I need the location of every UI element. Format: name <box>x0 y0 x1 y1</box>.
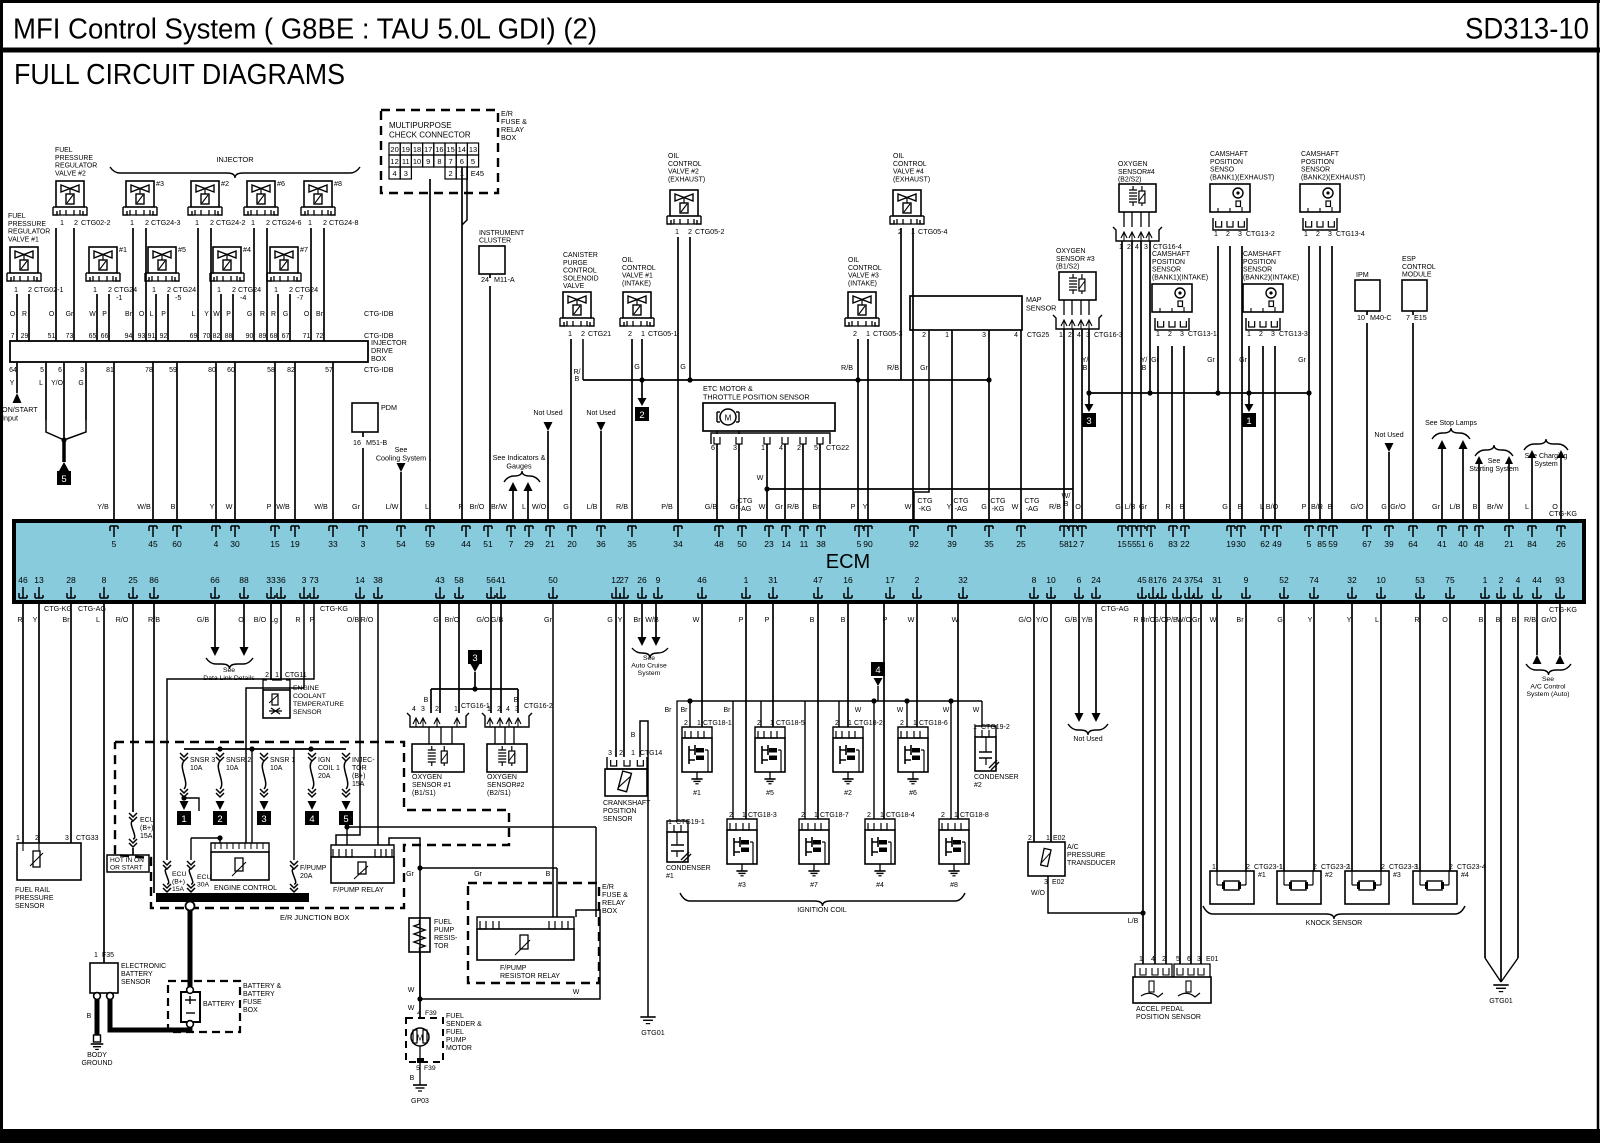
svg-text:CTG-AG: CTG-AG <box>1101 604 1129 613</box>
svg-text:G: G <box>1115 502 1121 511</box>
svg-text:3: 3 <box>472 653 477 664</box>
svg-text:L/B: L/B <box>587 502 598 511</box>
svg-text:Y: Y <box>1347 615 1352 624</box>
svg-text:BOX: BOX <box>371 354 386 363</box>
svg-text:10: 10 <box>1376 575 1386 585</box>
wire colour labels above ECM <box>97 502 1558 511</box>
svg-text:Gr: Gr <box>66 311 74 318</box>
branch from SNSR3 fuse <box>181 795 186 800</box>
svg-text:Y: Y <box>1308 615 1313 624</box>
svg-text:20: 20 <box>567 539 577 549</box>
svg-text:(BANK1)(INTAKE): (BANK1)(INTAKE) <box>1152 274 1208 281</box>
svg-text:20A: 20A <box>318 773 331 780</box>
svg-text:51: 51 <box>1136 539 1146 549</box>
svg-text:F39: F39 <box>425 1010 437 1017</box>
svg-text:Br: Br <box>812 502 820 511</box>
svg-text:1: 1 <box>14 285 18 294</box>
svg-text:1: 1 <box>93 285 97 294</box>
svg-text:ACCEL PEDAL: ACCEL PEDAL <box>1136 1006 1184 1013</box>
wire ECM 86 to bus bar <box>153 604 155 893</box>
E/R fuse and relay box lower dashed outline <box>468 883 599 983</box>
svg-text:85: 85 <box>1317 539 1327 549</box>
svg-text:5: 5 <box>814 443 818 452</box>
svg-text:57: 57 <box>325 367 333 374</box>
svg-text:4: 4 <box>1151 956 1155 963</box>
svg-text:1: 1 <box>1304 231 1308 238</box>
svg-text:CTG13-1: CTG13-1 <box>1188 331 1217 338</box>
fuel rail pressure sensor <box>17 843 81 880</box>
svg-text:51: 51 <box>483 539 493 549</box>
svg-text:BATTERY: BATTERY <box>203 1001 235 1008</box>
svg-text:(INTAKE): (INTAKE) <box>848 280 877 287</box>
svg-text:SENSOR: SENSOR <box>293 709 322 716</box>
svg-text:Gr: Gr <box>406 871 414 878</box>
svg-text:2: 2 <box>1226 231 1230 238</box>
svg-text:30A: 30A <box>197 882 210 889</box>
svg-text:CTG22: CTG22 <box>826 443 849 452</box>
wires valves and injectors to injector drive box <box>10 228 324 341</box>
svg-text:SNSR 2: SNSR 2 <box>226 757 251 764</box>
svg-text:W: W <box>905 502 912 511</box>
svg-text:10A: 10A <box>226 765 239 772</box>
svg-text:46: 46 <box>697 575 707 585</box>
svg-text:G: G <box>78 380 83 387</box>
svg-text:W: W <box>855 707 862 714</box>
svg-text:2: 2 <box>581 329 585 338</box>
svg-text:2: 2 <box>1449 864 1453 871</box>
injector #2 <box>191 181 219 207</box>
svg-text:41: 41 <box>1437 539 1447 549</box>
bottom black bar <box>0 1129 1600 1143</box>
svg-text:90: 90 <box>246 333 254 340</box>
thick bus bar in junction box <box>156 893 309 902</box>
svg-text:1: 1 <box>866 329 870 338</box>
svg-text:10A: 10A <box>190 765 203 772</box>
svg-text:11: 11 <box>402 157 410 166</box>
ON/START input arrow <box>13 393 22 403</box>
svg-text:12: 12 <box>390 157 398 166</box>
fuse F/PUMP 20A <box>293 749 295 860</box>
svg-text:47: 47 <box>813 575 823 585</box>
svg-text:Gr: Gr <box>474 871 482 878</box>
svg-text:18: 18 <box>413 145 421 154</box>
svg-text:POSITION SENSOR: POSITION SENSOR <box>1136 1014 1201 1021</box>
svg-text:G: G <box>981 502 987 511</box>
svg-text:P: P <box>226 311 231 318</box>
svg-text:11: 11 <box>800 539 809 549</box>
svg-text:15A: 15A <box>140 833 153 840</box>
svg-text:KNOCK SENSOR: KNOCK SENSOR <box>1306 920 1362 927</box>
svg-text:CTG23-4: CTG23-4 <box>1457 864 1486 871</box>
camshaft position sensor bank2 intake <box>1243 284 1283 312</box>
svg-text:2: 2 <box>1316 231 1320 238</box>
svg-text:RESISTOR RELAY: RESISTOR RELAY <box>500 973 560 980</box>
svg-text:2: 2 <box>289 285 293 294</box>
svg-text:W: W <box>943 707 950 714</box>
svg-text:W: W <box>693 615 700 624</box>
svg-text:59: 59 <box>1328 539 1338 549</box>
svg-text:See: See <box>1488 458 1501 465</box>
svg-text:GROUND: GROUND <box>81 1060 112 1067</box>
svg-text:1: 1 <box>152 285 156 294</box>
svg-text:SENDER &: SENDER & <box>446 1021 482 1028</box>
svg-text:L/B: L/B <box>1125 502 1136 511</box>
svg-text:W/O: W/O <box>1031 890 1046 897</box>
svg-text:CTG-KG: CTG-KG <box>1549 605 1577 614</box>
see data link details <box>214 604 216 647</box>
svg-text:15: 15 <box>446 145 454 154</box>
HOT IN ON OR START box <box>107 855 149 872</box>
svg-text:INJEC-: INJEC- <box>352 757 375 764</box>
svg-text:Starting System: Starting System <box>1469 466 1519 473</box>
svg-text:Gr: Gr <box>544 615 553 624</box>
svg-text:CTG05-3: CTG05-3 <box>873 329 903 338</box>
svg-text:2: 2 <box>265 672 269 679</box>
svg-text:IGN: IGN <box>318 757 330 764</box>
svg-text:HOT IN ON: HOT IN ON <box>110 857 144 864</box>
svg-text:L/B: L/B <box>1128 918 1139 925</box>
svg-text:CTG-KG: CTG-KG <box>320 604 348 613</box>
svg-text:W: W <box>973 707 980 714</box>
svg-text:Y: Y <box>618 615 623 624</box>
svg-text:2: 2 <box>729 812 733 819</box>
Gr bus wire <box>1089 392 1309 394</box>
svg-text:R/B: R/B <box>616 502 628 511</box>
svg-text:PDM: PDM <box>381 403 397 412</box>
svg-text:2: 2 <box>1499 575 1504 585</box>
svg-text:10: 10 <box>1357 313 1365 322</box>
svg-text:O: O <box>1075 502 1081 511</box>
svg-text:1: 1 <box>274 285 278 294</box>
svg-text:1: 1 <box>1347 864 1351 871</box>
injector #8 <box>304 181 332 207</box>
svg-text:2: 2 <box>497 706 501 713</box>
svg-text:POSITION: POSITION <box>1210 159 1243 166</box>
svg-text:CTG05-4: CTG05-4 <box>918 227 948 236</box>
svg-text:4: 4 <box>1077 332 1081 339</box>
svg-text:38: 38 <box>816 539 826 549</box>
fuse SNSR 2 10A <box>216 753 224 757</box>
svg-text:1: 1 <box>848 720 852 727</box>
oxygen sensor #3 <box>1059 272 1096 300</box>
svg-text:PRESSURE: PRESSURE <box>15 895 54 902</box>
E/R fuse and relay box (check connector) dashed outline <box>381 110 498 193</box>
svg-text:SD313-10: SD313-10 <box>1465 13 1589 46</box>
svg-text:ECU: ECU <box>197 874 211 881</box>
svg-text:4: 4 <box>1516 575 1521 585</box>
svg-text:B: B <box>1142 365 1147 372</box>
svg-text:54: 54 <box>1193 575 1203 585</box>
svg-text:4: 4 <box>779 443 783 452</box>
svg-text:R: R <box>271 311 276 318</box>
svg-text:CTG16-3: CTG16-3 <box>1094 332 1123 339</box>
svg-text:F/PUMP RELAY: F/PUMP RELAY <box>333 887 384 894</box>
thick wire battery sensor to battery <box>110 999 190 1030</box>
svg-text:#8: #8 <box>950 882 958 889</box>
R/B bus wire <box>583 379 989 381</box>
svg-text:19: 19 <box>402 145 410 154</box>
svg-text:CTG16-4: CTG16-4 <box>1153 244 1182 251</box>
svg-text:(BANK2)(INTAKE): (BANK2)(INTAKE) <box>1243 274 1299 281</box>
svg-text:3: 3 <box>982 332 986 339</box>
svg-text:P: P <box>161 311 166 318</box>
svg-text:R/O: R/O <box>361 615 374 624</box>
svg-text:G/O: G/O <box>476 615 490 624</box>
svg-text:#7: #7 <box>810 882 818 889</box>
svg-text:BOX: BOX <box>243 1007 258 1014</box>
thick wire bus bar to battery <box>188 910 193 988</box>
svg-text:O: O <box>139 311 145 318</box>
svg-text:22: 22 <box>1180 539 1190 549</box>
svg-text:60: 60 <box>227 367 235 374</box>
svg-text:-4: -4 <box>240 293 246 302</box>
svg-text:FULL CIRCUIT DIAGRAMS: FULL CIRCUIT DIAGRAMS <box>14 59 345 91</box>
svg-text:3: 3 <box>1180 331 1184 338</box>
svg-text:82: 82 <box>213 333 221 340</box>
svg-text:W: W <box>759 502 766 511</box>
svg-text:CTG18-2: CTG18-2 <box>854 720 883 727</box>
svg-text:3: 3 <box>361 539 366 549</box>
wire ECM 25 through ECU (B+) 15A fuse to hot-in-on box <box>132 604 134 812</box>
svg-text:1: 1 <box>487 706 491 713</box>
svg-text:#1: #1 <box>119 245 127 254</box>
svg-text:2: 2 <box>1127 244 1131 251</box>
svg-text:1: 1 <box>1247 331 1251 338</box>
svg-text:CTG18-3: CTG18-3 <box>748 812 777 819</box>
svg-text:68: 68 <box>270 333 278 340</box>
svg-text:53: 53 <box>1415 575 1425 585</box>
svg-text:A/C: A/C <box>1067 844 1079 851</box>
svg-text:Not Used: Not Used <box>1374 432 1403 439</box>
svg-text:BATTERY: BATTERY <box>121 971 153 978</box>
svg-text:B: B <box>841 615 846 624</box>
svg-text:3: 3 <box>302 575 307 585</box>
svg-text:1: 1 <box>770 720 774 727</box>
svg-text:5: 5 <box>1176 956 1180 963</box>
svg-text:48: 48 <box>1474 539 1484 549</box>
svg-text:1: 1 <box>668 819 672 826</box>
page ref square 3 below ECM <box>468 650 482 664</box>
injector drive box <box>10 341 368 362</box>
svg-text:E15: E15 <box>1414 313 1427 322</box>
svg-text:W: W <box>1012 502 1019 511</box>
svg-text:OXYGEN: OXYGEN <box>487 774 517 781</box>
svg-text:REGULATOR: REGULATOR <box>8 229 50 236</box>
svg-text:CONTROL: CONTROL <box>563 268 597 275</box>
svg-text:16: 16 <box>435 145 443 154</box>
svg-text:7: 7 <box>449 157 453 166</box>
svg-text:2: 2 <box>74 218 78 227</box>
svg-text:3: 3 <box>261 814 266 825</box>
svg-text:System: System <box>638 670 661 677</box>
wires from check connector to ECM <box>429 179 431 521</box>
TPS connector crown <box>711 433 830 444</box>
svg-text:#2: #2 <box>221 179 229 188</box>
svg-text:CTG-IDB: CTG-IDB <box>364 365 394 374</box>
svg-text:G/B: G/B <box>197 615 210 624</box>
svg-text:36: 36 <box>596 539 606 549</box>
MAP sensor box <box>910 296 1022 330</box>
svg-text:-AG: -AG <box>739 504 752 513</box>
svg-text:15A: 15A <box>352 781 365 788</box>
svg-text:MFI Control System ( G8BE : T: MFI Control System ( G8BE : TAU 5.0L GDI… <box>13 14 597 46</box>
svg-text:SENSOR#2: SENSOR#2 <box>487 782 524 789</box>
svg-text:45: 45 <box>148 539 158 549</box>
svg-text:OIL: OIL <box>848 257 859 264</box>
svg-text:SENSO: SENSO <box>1210 167 1235 174</box>
svg-text:25: 25 <box>1016 539 1026 549</box>
svg-text:2: 2 <box>217 814 222 825</box>
svg-text:17: 17 <box>885 575 895 585</box>
oil control valve #3 <box>848 292 876 318</box>
svg-text:R: R <box>1414 615 1419 624</box>
svg-text:25: 25 <box>128 575 138 585</box>
svg-text:#4: #4 <box>876 882 884 889</box>
svg-text:59: 59 <box>425 539 435 549</box>
svg-text:Gr: Gr <box>1207 357 1215 364</box>
svg-text:CONDENSER: CONDENSER <box>974 774 1019 781</box>
svg-text:33: 33 <box>266 575 276 585</box>
svg-text:1: 1 <box>1214 231 1218 238</box>
svg-text:R: R <box>260 311 265 318</box>
svg-text:MULTIPURPOSE: MULTIPURPOSE <box>389 121 452 130</box>
svg-text:Br/W: Br/W <box>491 502 507 511</box>
svg-text:28: 28 <box>66 575 76 585</box>
svg-text:CTG18-1: CTG18-1 <box>703 720 732 727</box>
svg-text:2: 2 <box>688 227 692 236</box>
page ref square 3 above ECM <box>1088 393 1090 404</box>
svg-text:-7: -7 <box>297 293 303 302</box>
junction to oxygen sensor ground pins <box>472 686 477 691</box>
svg-text:TRANSDUCER: TRANSDUCER <box>1067 860 1116 867</box>
oil control valve #4 <box>893 190 921 216</box>
svg-text:14: 14 <box>781 539 791 549</box>
W branch wire from TPS pin 1 <box>764 486 769 491</box>
svg-text:2: 2 <box>941 812 945 819</box>
page ref squares 1-5 in junction box <box>180 801 189 810</box>
svg-text:P: P <box>102 311 107 318</box>
svg-text:E01: E01 <box>1206 956 1219 963</box>
svg-text:2: 2 <box>757 720 761 727</box>
svg-text:TEMPERATURE: TEMPERATURE <box>293 701 344 708</box>
svg-text:POSITION: POSITION <box>1243 259 1276 266</box>
svg-text:20: 20 <box>390 145 398 154</box>
svg-text:41: 41 <box>496 575 506 585</box>
svg-text:W/B: W/B <box>314 502 328 511</box>
svg-text:27: 27 <box>619 575 629 585</box>
see A/C control system <box>1536 604 1538 655</box>
svg-text:G: G <box>433 615 439 624</box>
svg-text:L: L <box>425 502 429 511</box>
svg-text:Y: Y <box>10 380 15 387</box>
wires from injector drive box down to ECM <box>114 362 333 521</box>
svg-text:W/B: W/B <box>645 615 659 624</box>
svg-text:#2: #2 <box>974 782 982 789</box>
svg-text:5: 5 <box>471 157 475 166</box>
wires ECM to oxygen sensor connectors <box>439 604 441 713</box>
wire from square 5 to fuel pump resistor relay <box>344 824 349 829</box>
svg-text:62: 62 <box>1260 539 1270 549</box>
svg-text:2: 2 <box>835 720 839 727</box>
svg-text:FUEL: FUEL <box>446 1013 464 1020</box>
svg-text:21: 21 <box>1504 539 1514 549</box>
injector #7 <box>270 247 298 273</box>
svg-text:1: 1 <box>251 218 255 227</box>
svg-text:R: R <box>295 615 300 624</box>
svg-text:2: 2 <box>1259 331 1263 338</box>
svg-text:3: 3 <box>1238 231 1242 238</box>
svg-text:2: 2 <box>28 285 32 294</box>
svg-text:CAMSHAFT: CAMSHAFT <box>1152 251 1191 258</box>
svg-text:B: B <box>1496 615 1501 624</box>
svg-text:24: 24 <box>481 275 489 284</box>
svg-text:Cooling System: Cooling System <box>376 454 426 463</box>
svg-text:(B2/S1): (B2/S1) <box>487 790 511 797</box>
svg-text:Gr: Gr <box>1192 615 1201 624</box>
svg-text:PURGE: PURGE <box>563 260 588 267</box>
svg-text:9: 9 <box>656 575 661 585</box>
svg-text:IGNITION COIL: IGNITION COIL <box>797 907 847 914</box>
svg-text:FUEL: FUEL <box>434 919 452 926</box>
svg-text:BATTERY &: BATTERY & <box>243 983 281 990</box>
svg-text:FUSE: FUSE <box>243 999 262 1006</box>
svg-text:Gr: Gr <box>1298 357 1306 364</box>
svg-text:CTG25: CTG25 <box>1027 332 1049 339</box>
svg-text:7: 7 <box>11 333 15 340</box>
svg-text:M11-A: M11-A <box>494 275 515 284</box>
svg-text:F39: F39 <box>424 1065 436 1072</box>
svg-text:POSITION: POSITION <box>603 808 636 815</box>
thick wire battery sensor to body ground <box>95 999 100 1035</box>
svg-text:64: 64 <box>1408 539 1418 549</box>
svg-text:39: 39 <box>1384 539 1394 549</box>
svg-text:13: 13 <box>469 145 477 154</box>
svg-text:CTG23-2: CTG23-2 <box>1321 864 1350 871</box>
svg-text:4: 4 <box>412 706 416 713</box>
svg-text:89: 89 <box>259 333 267 340</box>
fuel pump resistor <box>409 918 430 952</box>
svg-text:Br: Br <box>681 707 689 714</box>
svg-text:78: 78 <box>145 367 153 374</box>
wires valves to ECM and R/B bus <box>570 339 572 521</box>
oxygen sensor #2 <box>487 744 527 772</box>
svg-text:10A: 10A <box>270 765 283 772</box>
svg-text:54: 54 <box>396 539 406 549</box>
PDM box <box>352 403 378 432</box>
svg-text:9: 9 <box>426 157 430 166</box>
svg-text:CTG05-2: CTG05-2 <box>695 227 725 236</box>
svg-text:CANISTER: CANISTER <box>563 252 598 259</box>
svg-text:(B1/S2): (B1/S2) <box>1056 264 1079 271</box>
svg-text:71: 71 <box>303 333 311 340</box>
svg-text:#3: #3 <box>738 882 746 889</box>
svg-text:8: 8 <box>102 575 107 585</box>
check connector pin grid <box>389 143 400 155</box>
svg-text:2: 2 <box>922 332 926 339</box>
injector #4 <box>213 247 241 273</box>
svg-text:W: W <box>408 987 415 994</box>
svg-text:Y: Y <box>204 311 209 318</box>
svg-text:OXYGEN: OXYGEN <box>1056 248 1086 255</box>
svg-text:15: 15 <box>270 539 280 549</box>
svg-text:3: 3 <box>515 706 519 713</box>
svg-text:70: 70 <box>203 333 211 340</box>
svg-text:W: W <box>213 311 220 318</box>
svg-text:OR START: OR START <box>110 865 143 872</box>
svg-text:51: 51 <box>48 333 56 340</box>
svg-text:1: 1 <box>631 750 635 757</box>
svg-text:#5: #5 <box>766 790 774 797</box>
